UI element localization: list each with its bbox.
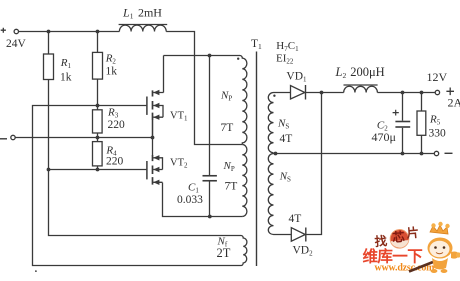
svg-text:片: 片 <box>406 225 420 241</box>
svg-text:24V: 24V <box>6 38 27 50</box>
svg-text:R3: R3 <box>107 107 119 120</box>
svg-text:2A: 2A <box>448 96 460 110</box>
svg-text:4T: 4T <box>289 213 302 225</box>
svg-text:芯: 芯 <box>392 229 406 245</box>
svg-text:H7C1: H7C1 <box>276 40 299 53</box>
svg-text:VD1: VD1 <box>286 71 307 84</box>
svg-text:L2200μH: L2200μH <box>335 65 385 80</box>
svg-text:NS: NS <box>279 171 291 184</box>
svg-text:0.033: 0.033 <box>177 194 203 206</box>
svg-text:330: 330 <box>429 128 447 140</box>
svg-text:2T: 2T <box>217 246 231 260</box>
svg-text:C1: C1 <box>188 182 199 195</box>
svg-text:NS: NS <box>277 118 289 131</box>
svg-text:1k: 1k <box>60 72 72 84</box>
svg-text:7T: 7T <box>225 181 238 193</box>
svg-text:7T: 7T <box>221 122 234 134</box>
svg-text:VT1: VT1 <box>170 111 188 123</box>
svg-text:4T: 4T <box>280 133 293 145</box>
svg-text:R2: R2 <box>105 53 117 66</box>
svg-text:1k: 1k <box>106 66 118 78</box>
svg-text:VD2: VD2 <box>293 245 314 258</box>
svg-text:L12mH: L12mH <box>122 6 162 21</box>
svg-text:R1: R1 <box>60 57 72 70</box>
svg-text:220: 220 <box>108 119 126 131</box>
svg-text:VT2: VT2 <box>170 158 188 170</box>
svg-text:220: 220 <box>106 156 124 168</box>
svg-text:NP: NP <box>223 160 235 173</box>
svg-text:470μ: 470μ <box>372 130 396 144</box>
svg-text:T1: T1 <box>251 38 262 51</box>
svg-text:12V: 12V <box>427 70 448 84</box>
svg-text:找: 找 <box>374 233 388 249</box>
svg-text:EI22: EI22 <box>276 53 294 66</box>
svg-text:R5: R5 <box>429 114 441 127</box>
svg-text:NP: NP <box>220 90 232 103</box>
